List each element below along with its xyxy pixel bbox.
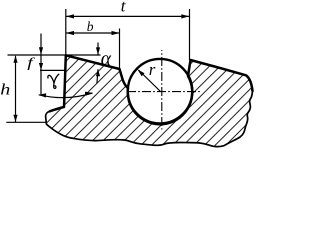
- svg-text:b: b: [87, 19, 94, 34]
- f dimension arrows: [40, 34, 42, 96]
- svg-text:f: f: [27, 55, 35, 70]
- profile outline: tooth faces and trough (thick): [50, 55, 253, 124]
- alpha dimension arrows: [97, 43, 99, 55]
- f lower level line B: [40, 69, 66, 71]
- tip level line A: [8, 54, 101, 56]
- gamma arc with arrows: [39, 93, 93, 98]
- t extension line right: [189, 9, 191, 60]
- b dimension line: [66, 32, 120, 34]
- svg-text:r: r: [149, 60, 156, 79]
- t dimension line: [66, 15, 189, 17]
- break lines: right and bottom wavy edges (thin): [46, 91, 253, 147]
- svg-text:α: α: [101, 49, 112, 70]
- t extension line left: [65, 9, 67, 55]
- svg-text:h: h: [0, 80, 10, 98]
- centerline vertical (dash-dot): [161, 50, 163, 130]
- svg-text:t: t: [121, 0, 127, 16]
- r radius arrow: [139, 70, 161, 92]
- b extension line right: [119, 29, 121, 70]
- label gamma: [48, 74, 59, 88]
- trough construction circle r: [128, 59, 193, 124]
- hatched body (ratchet wheel section): [46, 55, 253, 146]
- centerline horizontal (dash-dot): [129, 91, 201, 93]
- h dimension: [15, 56, 17, 122]
- h bottom extension line C: [6, 121, 47, 123]
